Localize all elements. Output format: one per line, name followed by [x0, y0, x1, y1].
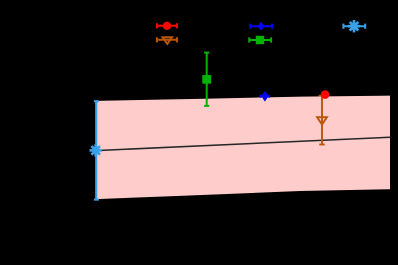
uncertainty band (pink): [96, 96, 390, 200]
red circle data point: [321, 90, 330, 99]
green square marker: [202, 75, 211, 84]
legend: orange entry: [157, 37, 177, 44]
legend: red entry: [157, 23, 177, 28]
blue diamond marker: [263, 93, 268, 100]
central model line: [96, 137, 390, 150]
cyan asterisk marker: [90, 144, 102, 156]
legend: blue entry: [250, 24, 272, 29]
legend: green entry: [249, 37, 271, 42]
blue data point errorbar: [261, 95, 270, 98]
legend cyan asterisk marker: [348, 20, 360, 32]
legend: cyan entry: [343, 24, 365, 29]
orange upper-limit arrow: [317, 96, 327, 145]
cyan vertical errorbar: [94, 101, 99, 199]
green data point errorbar: [204, 53, 209, 106]
